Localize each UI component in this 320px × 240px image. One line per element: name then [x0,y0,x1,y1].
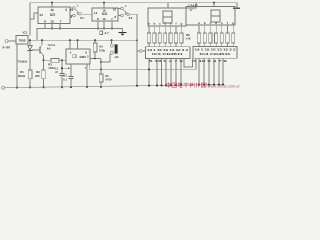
node rail end at K2 line [136,40,138,42]
wire K3 contact to IC3 [142,50,145,52]
capacitor C1 [60,74,65,76]
wire input to IC1 [8,40,16,42]
wire DS1 segment e [170,26,172,33]
wire RA1 element 2 to IC3 [153,43,155,47]
display label tab box [168,3,196,8]
wire C1 stub to pin5 wire [62,67,71,69]
node C1 stub junction [61,67,63,69]
wire diode to R1 [29,50,31,70]
node C1 at bus [61,86,63,88]
switch K2 common contact [127,13,130,16]
wire DS1 segment a [148,26,150,33]
wire RA2 element 6 to IC4 [227,43,229,47]
node IC4 bottom pin 5 at bus [218,83,220,85]
watermark red text [167,83,170,88]
svg-text:IC5: IC5 [50,13,56,17]
node IC1 gnd at bus [16,87,18,89]
wire IC4 bottom pin 2 to bus [203,58,205,84]
wire IC2 pin7 down [86,64,88,87]
node IC3 bottom pin 2 at bus [160,84,162,86]
wire crystal top to rail [111,40,113,44]
svg-text:5 10 9 4 7 6: 5 10 9 4 7 6 [149,59,184,63]
wire IC6 pin9 stub [118,15,121,17]
resistor array RA2 element 2 [203,33,206,43]
wire IC5 pin10 stub [70,7,73,9]
wire RA1 element 1 to IC3 [148,43,150,47]
wire IC4 bottom pin 6 to bus [222,58,224,84]
wire top bus right drop [236,3,238,9]
wire left vertical from top bus to IC1 [29,3,31,36]
wire IC6 pin15 down [103,21,105,29]
wire R2 to bus [43,79,45,88]
wire DS2 segment e [221,25,223,33]
resistor array RA1 element 2 [153,33,156,43]
op IC6 box [92,8,118,21]
resistor R4 box [93,43,97,52]
svg-text:14: 14 [39,13,43,17]
wire IC3 bottom pin 3 to bus [165,59,167,86]
node IC4 bottom pin 6 at bus [222,83,224,85]
node IC4 bottom pin 2 at bus [203,84,205,86]
node IC2 pin7 at bus [86,86,88,88]
node IC3 pin at bus [148,85,150,87]
svg-text:15: 15 [102,17,106,21]
wire DS2 segment a [198,25,200,33]
wire R4 bottom [94,52,96,59]
wire IC5 pin9 stub [70,15,73,17]
svg-text:d: d [215,21,217,25]
wire display DS2 pin stub thick [233,7,240,9]
wire IC5 pin7 down [59,24,61,29]
wire IC1 gnd down [16,44,18,88]
wire DS1 segment g [180,26,182,33]
node R4 pin3 junction [94,58,96,60]
wire emitter to R3 [44,59,52,61]
wire pin3 to crystal node [100,59,102,63]
svg-text:10: 10 [113,8,117,12]
node emitter junction [42,59,44,61]
wire IC6 pin16 to bus [103,3,105,8]
wire crystal link [101,54,112,62]
wire IC6 pin8 down [97,21,99,29]
wire K2 line to K3 contact [137,50,139,52]
wire emitter to R2 [43,60,45,70]
wire IC5 pin16 to bus [51,3,53,7]
op IC1 7805 box [16,36,28,45]
wire R4 top [94,40,96,43]
diode D1 [28,46,33,51]
wire IC4 bottom pin 5 to bus [218,58,220,84]
wire Vss rail y28.5 [37,29,123,41]
op IC2 box [66,49,90,64]
crystal terminal upper [110,44,113,47]
display DS1 digit [163,11,172,23]
wire DS2 segment g [232,25,234,33]
node K2 wire at bus [136,85,138,87]
wire IC3 bottom pin 2 to bus [161,59,163,86]
wire C1 branch upper [61,60,63,73]
svg-text:f: f [227,21,228,25]
wire DS1 segment c [159,26,161,33]
switch K1 arm [75,9,79,12]
svg-text:d: d [164,22,166,26]
wire IC4 bottom pin 4 to bus [213,58,215,84]
wire RA1 element 3 to IC3 [159,43,161,47]
wire IC6 pin10 stub [118,8,121,10]
svg-text:b: b [204,21,206,25]
node rail R4 branch [94,39,96,41]
node IC6 pin7 junction [111,27,113,29]
wire bottom ground bus [5,84,223,87]
svg-text:4.7: 4.7 [105,31,110,35]
terminal bottom-left circle [2,86,5,89]
wire DS1 segment d [164,26,166,33]
node IC5 pin15 junction [51,27,53,29]
wire rail A turn up to IC4 [195,58,197,69]
resistor array RA2 element 6 [226,33,229,43]
svg-text:5: 5 [65,8,67,12]
svg-text:17: 17 [189,8,193,12]
node C3 at bus [70,86,72,88]
wire display DS2 to bus [213,3,215,7]
wire collector from rail [40,40,42,47]
transistor T1 emitter with arrow [40,51,44,56]
transistor T1 base bar [39,46,41,53]
resistor array RA1 element 1 [147,33,150,43]
node rail IC2 pin8 branch [76,39,78,41]
svg-text:JM: JM [115,55,120,59]
wire IC5 pin8 down [44,24,46,29]
wire IC3 bottom pin 5 to bus [175,59,177,86]
svg-text:750k: 750k [99,48,106,52]
switch K1 contact 1 [73,7,76,10]
node IC3 bottom pin 3 at bus [165,84,167,86]
node IC3 pin at mid rail [148,68,150,70]
node IC3 bottom pin 1 at bus [156,84,158,86]
svg-text:8: 8 [44,19,46,23]
wire mid rail y69.4 [89,68,196,70]
crystal terminal lower [110,51,113,54]
wire +5V rail y40.3 [28,39,137,41]
node R1 at bus [29,86,31,88]
op IC4 box [193,47,237,59]
wire emitter down [43,55,45,60]
resistor R5 box [99,74,103,82]
wire RA1 element 7 to IC3 [180,43,182,47]
switch K3 contact circle [140,50,143,53]
node IC4 bottom pin 1 at bus [198,84,200,86]
node R4 junction [100,61,102,63]
wire IC6 pin7 down [111,21,113,29]
node IC3 bottom pin 5 at bus [175,84,177,86]
node R2 at bus [42,86,44,88]
wire IC2 pin8 to rail [77,40,79,49]
wire IC3 bottom pin 4 to bus [170,59,172,86]
resistor array RA2 element 5 [220,33,223,43]
wire RA2 element 3 to IC4 [209,43,211,47]
svg-text:IC1: IC1 [23,30,28,34]
switch K2 arm [123,10,128,14]
node junction top bus / display DS2 [213,2,215,4]
display DS2 digit [211,10,220,22]
capacitor C3 [69,76,74,78]
label IC2 square [73,55,76,58]
svg-text:4060: 4060 [79,55,86,59]
resistor array RA2 element 1 [197,33,200,43]
svg-text:g: g [180,22,182,26]
node junction top bus / IC6 pin16 [103,2,105,4]
display DS2 box [186,7,235,26]
wire base to diode [32,49,40,51]
wire RA2 element 2 to IC4 [204,43,206,47]
wire DS2 segment f [227,25,229,33]
node R5 at bus [100,86,102,88]
wire IC2 pin5 down [70,64,72,76]
resistor R2 box [42,70,46,79]
svg-text:5 10 9 4 7 6: 5 10 9 4 7 6 [193,59,228,63]
wire IC2 pin4 to rail [69,40,71,49]
node junction top bus / IC5 pin16 [51,2,53,4]
wire RA2 element 5 to IC4 [221,43,223,47]
svg-text:16: 16 [50,8,54,12]
wire K2 common right and down [129,14,137,85]
capacitor C2 square symbol [100,31,103,34]
svg-text:www.xmdz.com.cn: www.xmdz.com.cn [208,84,241,89]
wire IC5 pin14 stub [30,13,38,19]
node IC6 pin15 junction [103,27,105,29]
node rail transistor branch [41,39,43,41]
wire DS2 segment b [204,25,206,33]
ground symbol [119,29,127,36]
resistor array RA1 element 4 [164,33,167,43]
node rail crystal branch [110,39,112,41]
svg-text:b: b [153,22,155,26]
node IC3 bottom pin 4 at bus [170,84,172,86]
node IC4 bottom pin 4 at bus [213,84,215,86]
wire R5 to bus [100,82,102,87]
svg-text:f: f [176,22,177,26]
node IC4 bottom pin 3 at bus [208,84,210,86]
wire IC3 bottom pin 6 to bus [180,59,182,86]
svg-text:7: 7 [60,19,62,23]
node R3 line / C1 junction [61,59,63,61]
svg-text:47: 47 [55,70,59,74]
switch K2 contact 2 [121,14,124,17]
svg-text:IC4 CD4511: IC4 CD4511 [200,52,232,56]
wire IC4 bottom pin 3 to bus [208,58,210,84]
wire IC2 pin output down [88,64,90,70]
wire RA1 element 6 to IC3 [175,43,177,47]
wire IC4 bottom pin 1 to bus [198,58,200,85]
resistor array RA2 element 7 [232,33,235,43]
wire R3 to IC2 [59,59,66,61]
wire RA2 element 1 to IC4 [198,43,200,47]
wire diode branch upper [29,40,31,45]
wire RA1 element 5 to IC3 [170,43,172,47]
wire C3 to bus [70,79,72,88]
wire K1 common to IC6 pin14 [82,14,92,16]
svg-text:15: 15 [50,19,54,23]
resistor array RA1 element 7 [180,33,183,43]
op IC5 box [38,7,70,24]
wire R1 to bus [29,79,31,88]
wire DS2 segment d [215,25,217,33]
svg-text:360Ω: 360Ω [18,74,26,78]
wire rail B IC3 to IC4 [184,58,193,67]
wire IC2 pin3 stub [90,58,101,60]
switch K2 contact 1 [121,7,124,10]
wire C1 to bus [61,76,63,88]
svg-text:0.1: 0.1 [63,77,67,81]
svg-text:×16: ×16 [186,37,191,41]
resistor array RA1 element 3 [158,33,161,43]
wire IC3 pin to mid rail and bus [148,59,150,86]
resistor array RA1 element 5 [169,33,172,43]
svg-text:K1: K1 [80,16,84,20]
resistor array RA2 element 3 [209,33,212,43]
svg-text:K2: K2 [129,16,133,20]
resistor array RA1 element 6 [174,33,177,43]
wire RA1 element 4 to IC3 [164,43,166,47]
resistor R3 box [51,58,59,62]
switch K1 common contact [79,13,82,16]
wire IC3 bottom pin 1 to bus [156,59,158,86]
node IC5 pin7 junction [59,27,61,29]
wire top +V bus [30,2,237,4]
wire RA2 element 7 to IC4 [232,43,234,47]
svg-text:20k: 20k [35,74,40,78]
display DS1 box [148,8,186,26]
resistor array RA2 element 4 [215,33,218,43]
svg-text:14: 14 [94,11,98,15]
svg-text:BG: BG [47,47,51,50]
wire RA2 element 4 to IC4 [215,43,217,47]
svg-text:4700: 4700 [105,78,112,82]
resistor R1 box [28,70,32,79]
op IC3 box [146,47,191,59]
terminal input circle [5,40,8,43]
node rail IC2 pin4 branch [69,39,71,41]
node IC6 pin8 junction [97,27,99,29]
node rail diode branch [29,39,31,41]
wire DS1 segment f [175,26,177,33]
svg-text:16: 16 [102,9,106,13]
wire DS2 segment c [209,25,211,33]
wire IC5 pin15 down [51,24,53,29]
svg-text:T2N804: T2N804 [18,60,28,63]
crystal B1 body [115,44,118,53]
wire DS1 segment b [153,26,155,33]
svg-text:g: g [232,21,234,25]
svg-text:7805: 7805 [19,39,26,43]
svg-text:IC3 CD4511: IC3 CD4511 [152,52,184,56]
switch K1 contact 2 [73,14,76,17]
node mid rail R5 junction [100,68,102,70]
node IC3 bottom pin 6 at bus [180,84,182,86]
wire R4 junction down [100,62,102,74]
svg-text:6~9V: 6~9V [3,45,11,49]
